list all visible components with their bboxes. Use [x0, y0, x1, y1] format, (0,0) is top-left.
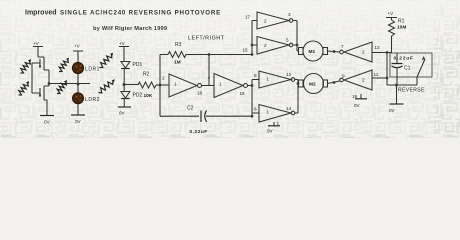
- wires C,D outputs to M2: [295, 80, 299, 114]
- LDR1: [72, 62, 100, 73]
- svg-text:13: 13: [375, 45, 381, 50]
- resistor ZD (mid upper): [59, 60, 68, 72]
- switch arrow: [417, 56, 425, 85]
- svg-text:0V: 0V: [267, 129, 274, 134]
- inverter E (pins 13/7): [340, 42, 380, 62]
- wire inv2 out to bus: [248, 85, 253, 87]
- svg-text:C2: C2: [187, 106, 194, 112]
- svg-text:18: 18: [197, 91, 203, 96]
- wire PD1-PD2: [123, 69, 125, 92]
- svg-text:15: 15: [243, 48, 249, 53]
- wire LDR2 to ground: [77, 104, 79, 115]
- +V supply (PD column): [119, 41, 129, 62]
- resistor R2: [138, 72, 156, 100]
- inverter B: [257, 37, 293, 55]
- svg-text:10K: 10K: [144, 93, 153, 99]
- resistor R3: [160, 42, 190, 66]
- ground (PD column): [118, 107, 131, 116]
- svg-text:2: 2: [264, 43, 267, 48]
- svg-text:1: 1: [277, 121, 280, 126]
- svg-text:1: 1: [174, 82, 177, 87]
- svg-text:R3: R3: [175, 42, 182, 48]
- svg-text:16: 16: [240, 91, 246, 96]
- inverter C: [259, 71, 295, 88]
- wire LDR1-LDR2: [77, 74, 79, 93]
- svg-text:9: 9: [342, 74, 345, 79]
- svg-text:+V: +V: [119, 41, 126, 46]
- inverter 2 (pins 4/16): [208, 74, 248, 98]
- photodiode PD1: [121, 62, 143, 69]
- box: [390, 53, 432, 77]
- svg-text:PD1: PD1: [133, 62, 143, 68]
- svg-text:7: 7: [341, 44, 344, 49]
- svg-text:1M: 1M: [174, 60, 181, 66]
- inverter 1 (pins 2/18): [162, 74, 203, 97]
- capacitor C2: [160, 106, 252, 136]
- svg-text:REVERSE: REVERSE: [398, 88, 425, 94]
- svg-text:5: 5: [286, 38, 289, 43]
- LDR2: [72, 93, 100, 104]
- bus inv1out to A,B inputs: [252, 21, 257, 55]
- capacitor C1: [392, 53, 411, 85]
- resistor ZE (near PD1): [100, 55, 112, 68]
- inverter A: [257, 12, 293, 29]
- photodiode PD2: [121, 92, 143, 99]
- svg-text:1: 1: [267, 77, 270, 82]
- svg-text:+V: +V: [74, 43, 81, 48]
- svg-text:14: 14: [286, 106, 292, 111]
- ground (LDR column): [71, 115, 85, 124]
- bottom wire: [387, 84, 417, 86]
- feedback wire: [190, 54, 252, 56]
- +V supply (FET column): [33, 41, 43, 57]
- wire C2/R3 left vertical: [159, 55, 161, 117]
- svg-text:R1: R1: [398, 19, 405, 25]
- svg-text:2: 2: [362, 78, 365, 83]
- svg-text:Improved: Improved: [25, 10, 57, 17]
- transistor Q2: [32, 86, 49, 115]
- wire node to LDR junction: [49, 83, 90, 85]
- svg-text:LDR2: LDR2: [85, 97, 100, 103]
- svg-text:2: 2: [264, 19, 267, 24]
- wire inv1 to inv2: [202, 85, 215, 87]
- node bus top: [251, 53, 254, 56]
- svg-text:by Wilf Rigter March 1999: by Wilf Rigter March 1999: [93, 26, 167, 32]
- node feedback/inv1out: [208, 53, 211, 56]
- svg-text:M1: M1: [309, 49, 316, 55]
- wire R2 to inverter 1: [156, 84, 169, 86]
- svg-text:10M: 10M: [397, 25, 406, 31]
- transistor Q1: [32, 57, 49, 80]
- svg-text:+V: +V: [33, 41, 40, 46]
- svg-text:LEFT/RIGHT: LEFT/RIGHT: [188, 36, 225, 42]
- svg-text:C1: C1: [404, 66, 411, 72]
- svg-text:0V: 0V: [75, 119, 82, 124]
- svg-text:0V: 0V: [389, 108, 396, 113]
- node LDR tap: [77, 83, 80, 86]
- svg-text:2: 2: [162, 76, 165, 81]
- ground (FET column): [40, 116, 54, 125]
- svg-text:0V: 0V: [44, 120, 51, 125]
- svg-text:1: 1: [267, 110, 270, 115]
- wires A,B outputs to M1: [293, 21, 299, 52]
- svg-text:1: 1: [219, 82, 222, 87]
- svg-text:8: 8: [254, 73, 257, 78]
- resistor ZB (gate, lower left): [19, 83, 29, 95]
- E/F input bus: [372, 53, 392, 86]
- inverter D: [259, 105, 295, 123]
- svg-text:PD2: PD2: [133, 93, 143, 99]
- svg-text:0V: 0V: [119, 111, 126, 116]
- resistor R1: [386, 11, 406, 53]
- svg-text:SINGLE AC/HC240 REVERSING PHOT: SINGLE AC/HC240 REVERSING PHOTOVORE: [60, 10, 221, 17]
- svg-text:4: 4: [208, 75, 211, 80]
- svg-text:R2: R2: [143, 72, 150, 78]
- gate bus wire: [31, 63, 33, 93]
- node inv1 input: [159, 84, 162, 87]
- svg-text:11: 11: [374, 72, 379, 77]
- svg-text:12: 12: [286, 72, 292, 77]
- wire PD tap to R2: [124, 84, 138, 86]
- svg-text:0V: 0V: [354, 103, 361, 108]
- resistor ZA (gate, upper left): [21, 61, 31, 73]
- svg-text:LDR1: LDR1: [85, 67, 100, 73]
- LOWER BUS / INVERTERS C,D: [252, 80, 259, 117]
- MOTOR M2: [299, 74, 328, 94]
- node between Q1/Q2: [48, 80, 51, 86]
- svg-text:3: 3: [288, 12, 291, 17]
- svg-text:+V: +V: [388, 11, 395, 16]
- inverter F (pins 11/9): [340, 70, 379, 90]
- svg-text:2: 2: [362, 50, 365, 55]
- pin1 enable ground under D: [267, 121, 280, 134]
- wire M1 to inverter E: [328, 51, 340, 52]
- wire down to inv1 output: [208, 55, 210, 86]
- svg-text:6: 6: [254, 107, 257, 112]
- node PD tap: [123, 83, 126, 86]
- MOTOR M1: [299, 41, 328, 61]
- svg-text:17: 17: [245, 15, 251, 20]
- ground (C1): [389, 85, 404, 113]
- wire M2 to inverter F: [328, 81, 340, 84]
- wire PD2 to ground: [123, 99, 125, 107]
- svg-text:0.22uF: 0.22uF: [190, 129, 208, 135]
- pin19 enable ground under F: [352, 94, 367, 108]
- +V supply (LDR column): [73, 43, 83, 62]
- resistor ZF (LDR tap to PD tap): [99, 81, 114, 93]
- svg-text:M2: M2: [309, 82, 316, 88]
- resistor ZC (mid lower): [57, 82, 66, 94]
